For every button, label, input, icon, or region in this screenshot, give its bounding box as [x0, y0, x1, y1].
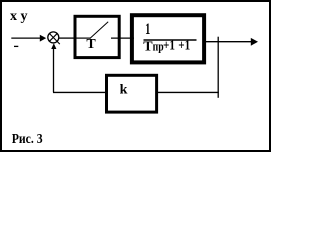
svg-text:Рис. 3: Рис. 3 [12, 130, 43, 146]
svg-text:k: k [120, 83, 128, 98]
svg-text:+1: +1 [163, 37, 175, 52]
svg-text:+1: +1 [178, 37, 190, 52]
svg-text:T: T [86, 37, 96, 52]
svg-text:1: 1 [145, 20, 150, 38]
svg-text:x y: x y [10, 9, 28, 24]
svg-text:Т: Т [143, 39, 153, 54]
svg-text:пр: пр [153, 40, 164, 54]
